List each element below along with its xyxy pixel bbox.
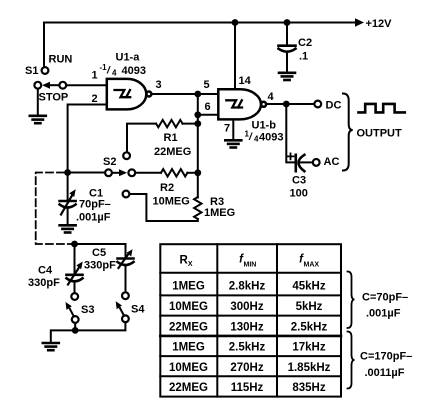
svg-text:22MEG: 22MEG — [169, 321, 208, 333]
ground (S3/S4) — [43, 343, 59, 350]
svg-text:4093: 4093 — [122, 65, 146, 77]
resistor R3 vertical — [194, 197, 201, 219]
svg-text:S2: S2 — [103, 156, 116, 168]
ground (S1 STOP) — [30, 116, 46, 123]
switch S3 — [66, 293, 79, 323]
capacitor C3 — [296, 155, 305, 171]
svg-text:300Hz: 300Hz — [230, 301, 263, 313]
svg-text:4: 4 — [268, 91, 275, 103]
svg-text:115Hz: 115Hz — [231, 382, 264, 394]
table frame — [160, 244, 341, 396]
svg-text:1: 1 — [92, 70, 98, 82]
ground (C2) — [279, 73, 295, 80]
svg-text:2.5kHz: 2.5kHz — [229, 342, 266, 354]
switch S4 — [116, 292, 129, 322]
U1-b schmitt hysteresis symbol — [226, 100, 242, 107]
capacitor C5 — [118, 249, 134, 292]
wire S1 pole to U1-a pin 1 — [66, 84, 107, 86]
svg-text:330pF: 330pF — [84, 260, 116, 272]
resistor R1 — [127, 120, 198, 152]
square wave symbol — [359, 104, 405, 113]
svg-text:4: 4 — [112, 69, 117, 78]
svg-text:STOP: STOP — [39, 92, 69, 104]
svg-text:+12V: +12V — [366, 18, 393, 30]
svg-text:S1: S1 — [25, 65, 38, 77]
wire C3 to AC — [300, 161, 313, 163]
svg-text:S4: S4 — [131, 304, 145, 316]
svg-text:10MEG: 10MEG — [169, 362, 208, 374]
svg-text:6: 6 — [205, 101, 211, 113]
capacitor C2 — [279, 19, 296, 72]
table thick divider — [160, 335, 341, 338]
ground (C1) — [60, 225, 76, 232]
svg-text:1MEG: 1MEG — [172, 281, 205, 293]
svg-text:.001µF: .001µF — [76, 212, 111, 224]
resistor R2 — [135, 169, 198, 176]
svg-text:U1-a: U1-a — [116, 52, 141, 64]
op-amp U1-a NAND gate body — [107, 79, 152, 110]
svg-text:R1: R1 — [164, 132, 178, 144]
R1 contact circle — [123, 152, 130, 159]
node C1 junction — [64, 169, 71, 176]
svg-text:17kHz: 17kHz — [292, 342, 325, 354]
svg-text:.001µF: .001µF — [366, 308, 401, 320]
node bus pin 6 — [194, 111, 201, 118]
svg-text:U1-b: U1-b — [252, 120, 277, 132]
svg-text:/: / — [248, 132, 253, 143]
wire S1 RUN drop from rail — [43, 23, 45, 67]
wire pin 6 stub — [198, 114, 219, 116]
wire U1-a pin 2 to C1 node — [68, 105, 107, 171]
wire RC bus vertical — [197, 94, 199, 198]
node rail pin14 junction — [232, 19, 239, 26]
AC terminal — [313, 159, 320, 166]
svg-text:AC: AC — [324, 156, 340, 168]
svg-text:270Hz: 270Hz — [230, 362, 263, 374]
svg-text:14: 14 — [239, 75, 252, 87]
svg-text:MAX: MAX — [304, 262, 320, 269]
wire S3/S4 commons to ground — [51, 322, 126, 342]
svg-text:C5: C5 — [92, 247, 106, 259]
svg-text:C2: C2 — [298, 37, 312, 49]
DC terminal — [314, 101, 321, 108]
svg-text:C=70pF–: C=70pF– — [362, 292, 408, 304]
svg-text:22MEG: 22MEG — [169, 382, 208, 394]
wire +12V top rail — [44, 22, 357, 24]
svg-text:1MEG: 1MEG — [172, 342, 205, 354]
svg-text:2.8kHz: 2.8kHz — [229, 281, 266, 293]
svg-text:10MEG: 10MEG — [153, 196, 190, 208]
svg-text:100: 100 — [290, 188, 308, 200]
node C4/C5 junction — [71, 241, 78, 248]
svg-text:45kHz: 45kHz — [292, 281, 325, 293]
capacitor C4 — [67, 244, 83, 293]
svg-text:C=170pF–: C=170pF– — [360, 351, 412, 363]
R3 contact circle — [123, 191, 130, 198]
svg-text:22MEG: 22MEG — [154, 146, 191, 158]
svg-text:330pF: 330pF — [28, 277, 60, 289]
capacitor C1 trimmer — [60, 173, 76, 225]
svg-text:3: 3 — [156, 79, 162, 91]
svg-text:/: / — [106, 66, 111, 77]
node bus R2 — [194, 169, 201, 176]
svg-text:5kHz: 5kHz — [296, 301, 323, 313]
svg-text:.0011µF: .0011µF — [365, 367, 405, 379]
svg-text:5: 5 — [204, 79, 210, 91]
switch S1 — [34, 67, 66, 89]
svg-text:OUTPUT: OUTPUT — [357, 128, 403, 140]
capacitor C3 plus sign — [288, 153, 294, 159]
wire pin 7 to ground — [232, 119, 234, 139]
svg-text:S3: S3 — [81, 304, 94, 316]
svg-text:2: 2 — [92, 93, 98, 105]
+12V arrowhead — [355, 18, 364, 26]
wire pin 4 to DC — [266, 103, 314, 105]
table brace C=170pF group — [348, 332, 355, 389]
svg-text:1.85kHz: 1.85kHz — [288, 362, 331, 374]
svg-text:MIN: MIN — [244, 262, 257, 269]
wire C1 node to S2 — [68, 172, 105, 174]
svg-text:C3: C3 — [292, 175, 306, 187]
svg-text:RX: RX — [180, 255, 193, 269]
node output junction — [283, 101, 290, 108]
wire S1 stop to ground — [37, 89, 39, 115]
svg-text:-1: -1 — [100, 63, 108, 72]
node S3 ground junction — [72, 327, 79, 334]
svg-text:DC: DC — [326, 100, 342, 112]
U1-a schmitt hysteresis symbol — [115, 90, 131, 97]
svg-text:C4: C4 — [38, 265, 53, 277]
output brace — [343, 94, 353, 171]
wire pin 14 from rail — [234, 23, 236, 90]
wire C4/C5 top — [75, 244, 126, 257]
table brace C=70pF group — [348, 272, 355, 329]
svg-text:R2: R2 — [160, 182, 174, 194]
dashed shield box — [36, 173, 71, 245]
svg-text:7: 7 — [224, 123, 230, 135]
switch S2 — [105, 169, 135, 176]
svg-text:70pF–: 70pF– — [79, 199, 111, 211]
ground (U1-b pin 7) — [225, 140, 241, 147]
svg-text:1MEG: 1MEG — [204, 207, 235, 219]
svg-text:130Hz: 130Hz — [230, 321, 263, 333]
wire U1-a pin 3 to bus — [152, 93, 219, 95]
svg-text:4093: 4093 — [259, 132, 283, 144]
op-amp U1-b NAND gate body — [218, 89, 266, 119]
wire R3 bottom loop — [130, 194, 198, 221]
svg-text:10MEG: 10MEG — [169, 301, 208, 313]
svg-text:RUN: RUN — [49, 54, 73, 66]
svg-text:2.5kHz: 2.5kHz — [291, 321, 328, 333]
svg-text:.1: .1 — [299, 51, 308, 63]
node bus junction pin3/pin5 — [194, 91, 201, 98]
wire output node down to C3 — [286, 104, 295, 162]
svg-text:835Hz: 835Hz — [292, 382, 325, 394]
node bus R1 — [194, 120, 201, 127]
